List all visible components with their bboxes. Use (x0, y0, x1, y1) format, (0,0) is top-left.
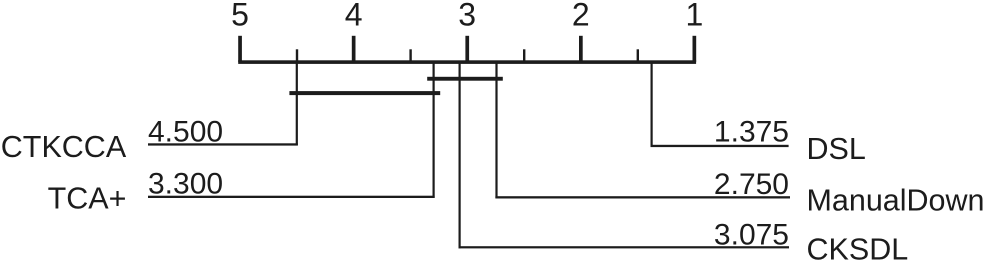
row line TCA+ (148, 196, 435, 198)
svg-text:CKSDL: CKSDL (807, 233, 909, 263)
clique bar TCA+/CKSDL/ManualDown (427, 77, 503, 81)
svg-text:2.750: 2.750 (714, 168, 789, 201)
major tick 1 (693, 36, 697, 62)
major tick 5 (238, 36, 242, 62)
row line CTKCCA (148, 143, 298, 145)
row line DSL (651, 145, 789, 147)
drop line ManualDown rank 2.75 (495, 62, 497, 198)
row line ManualDown (495, 196, 790, 198)
drop line DSL rank 1.375 (651, 62, 653, 147)
minor tick 3.5 (409, 49, 411, 61)
svg-text:3: 3 (458, 0, 476, 32)
row line CKSDL (459, 246, 790, 248)
svg-text:CTKCCA: CTKCCA (1, 130, 127, 164)
clique bar CTKCCA/TCA+ (289, 91, 440, 95)
major tick 2 (579, 36, 583, 62)
svg-text:5: 5 (231, 0, 249, 32)
major tick 3 (465, 36, 469, 62)
drop line CKSDL rank 3.075 (459, 62, 461, 248)
svg-text:1: 1 (686, 0, 704, 32)
svg-text:3.075: 3.075 (714, 219, 789, 252)
drop line TCA+ rank 3.3 (433, 62, 435, 198)
svg-text:TCA+: TCA+ (48, 182, 127, 216)
svg-text:DSL: DSL (807, 132, 866, 166)
svg-text:3.300: 3.300 (148, 168, 223, 201)
axis line (238, 60, 696, 64)
svg-text:4: 4 (345, 0, 363, 32)
minor tick 4.5 (296, 49, 298, 61)
svg-text:1.375: 1.375 (714, 116, 789, 149)
drop line CTKCCA rank 4.5 (296, 62, 298, 145)
minor tick 2.5 (523, 49, 525, 61)
svg-text:2: 2 (572, 0, 590, 32)
major tick 4 (352, 36, 356, 62)
svg-text:ManualDown: ManualDown (807, 184, 985, 218)
minor tick 1.5 (637, 49, 639, 61)
svg-text:4.500: 4.500 (148, 115, 223, 148)
